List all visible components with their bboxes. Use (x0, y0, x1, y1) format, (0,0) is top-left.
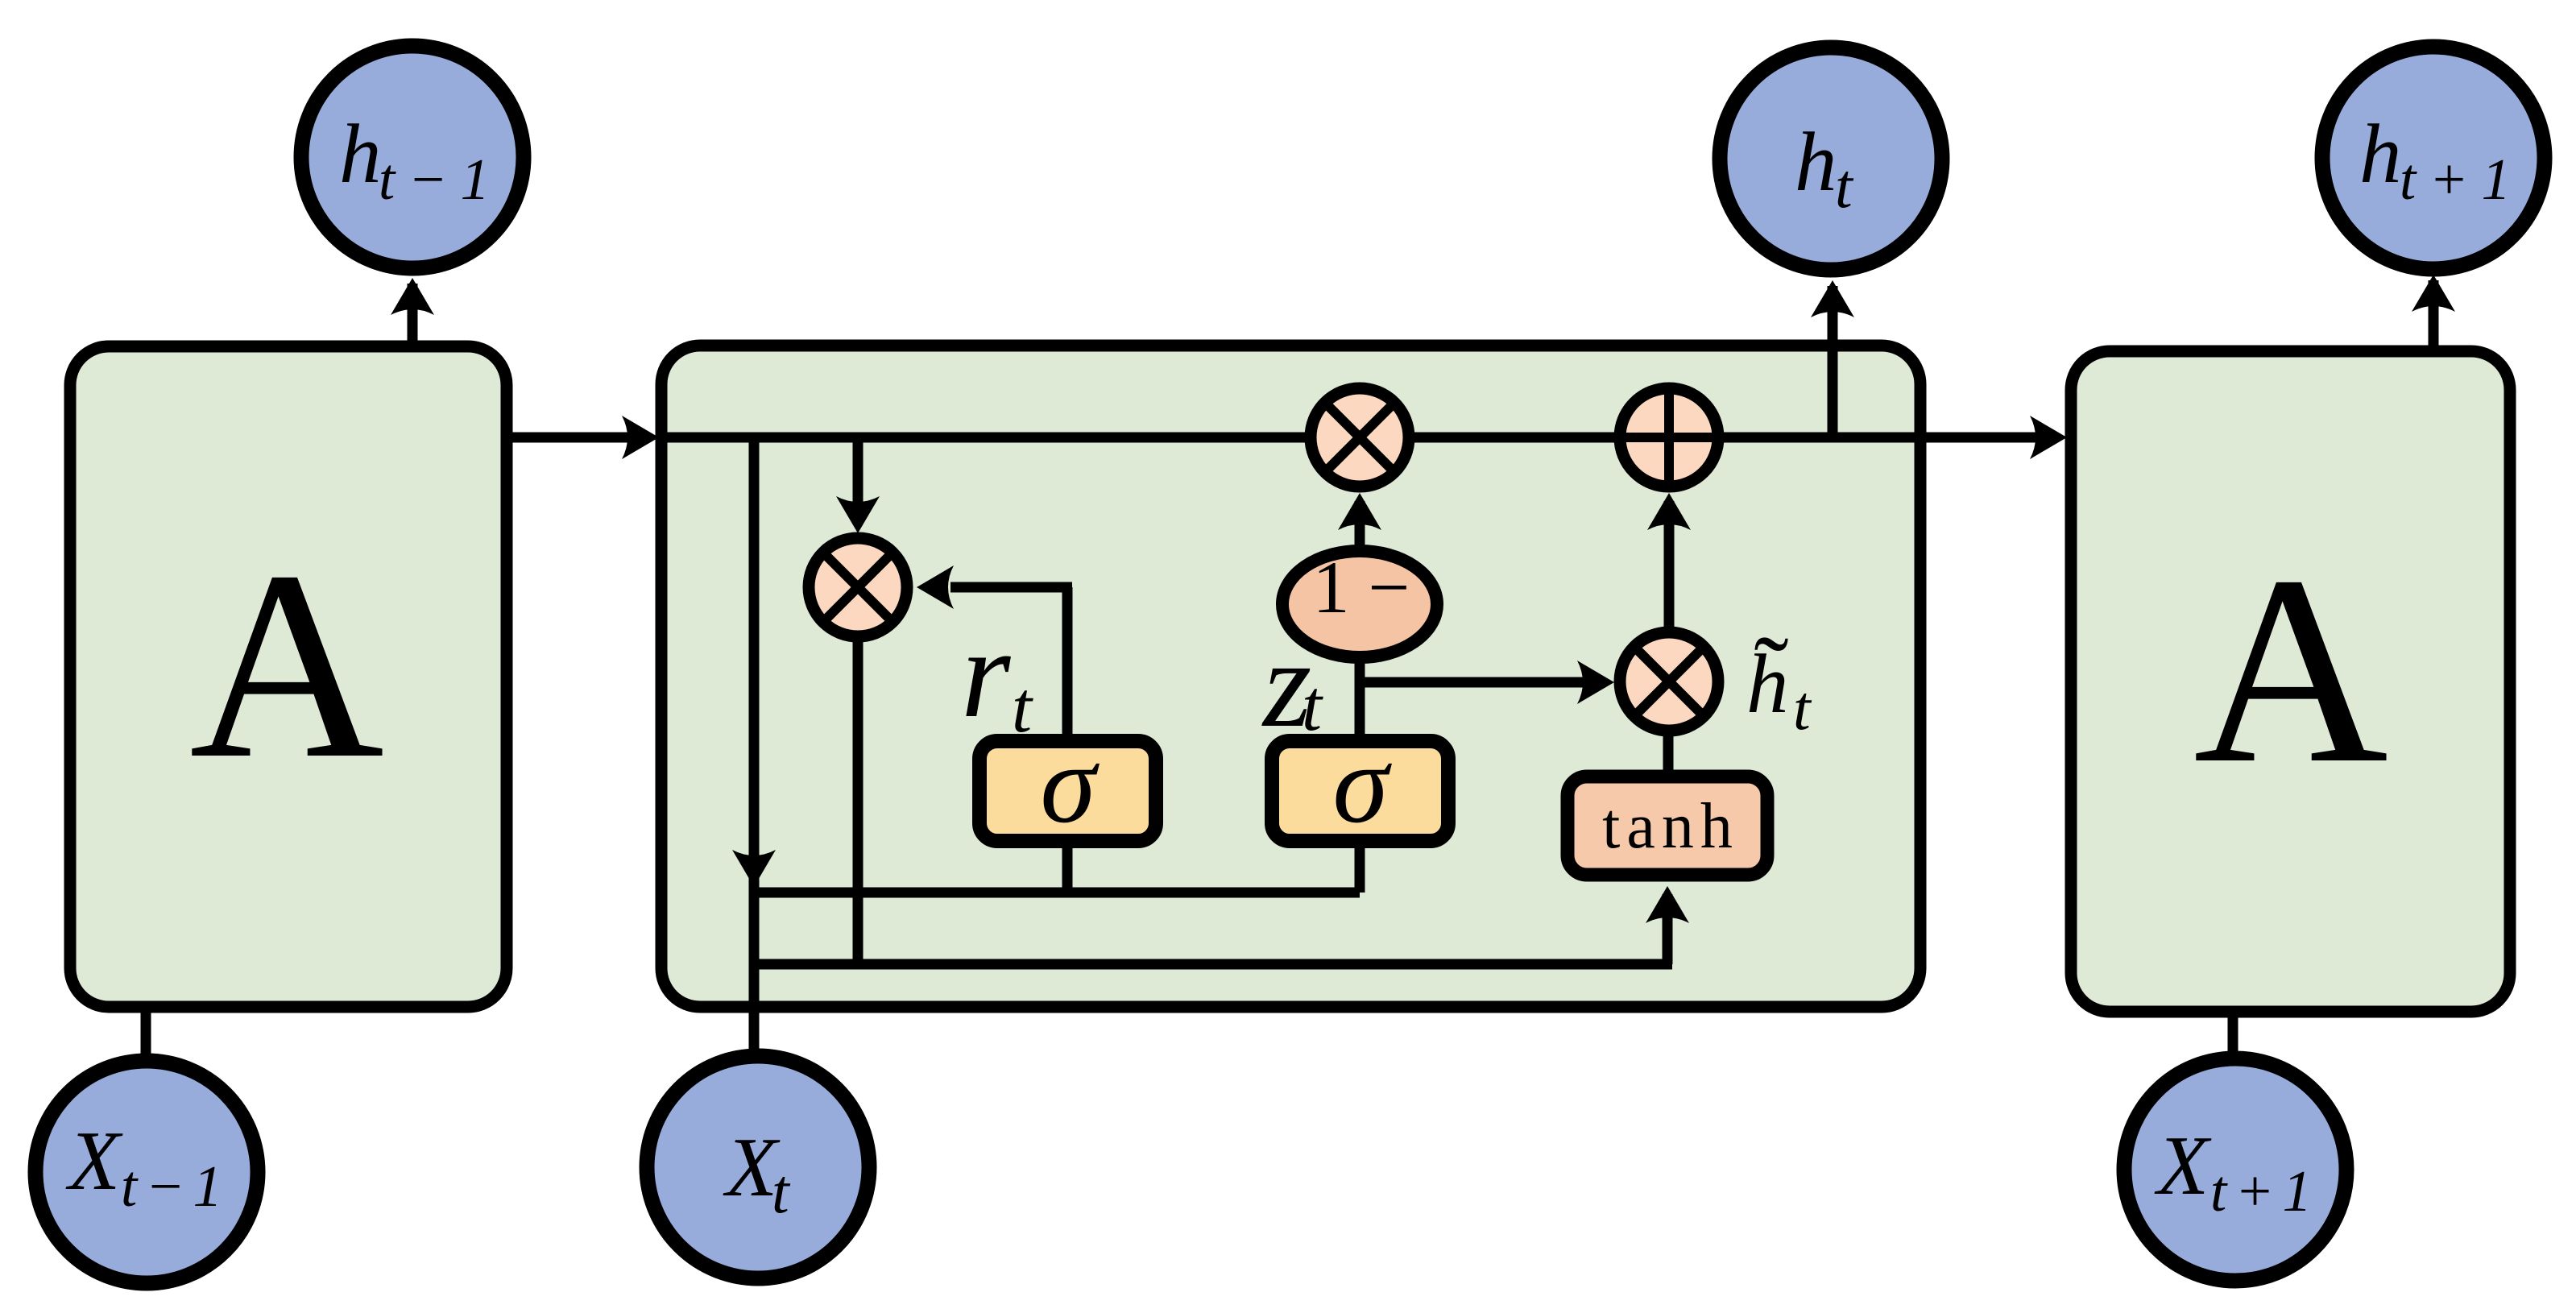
wire h-line left box to middle box (507, 433, 636, 443)
wire z_t riser (1355, 662, 1365, 734)
svg-text:X: X (2154, 1118, 2212, 1212)
wire bottom bus B (754, 959, 1672, 970)
wire z_t branch to right multiply (1360, 677, 1603, 688)
svg-text:A: A (189, 516, 384, 814)
wire bottom bus A (754, 888, 1360, 898)
wire riser to h_t+1 (2429, 280, 2439, 351)
node X_t-1 (35, 1061, 258, 1283)
svg-text:σ: σ (1040, 722, 1100, 847)
wire riser into tanh (1663, 894, 1673, 964)
node h_t-1 (301, 46, 524, 268)
gate multiply top (1311, 388, 1409, 487)
cell A right (2071, 351, 2510, 1012)
gate one-minus ellipse (1282, 551, 1437, 657)
gate tanh (1568, 777, 1767, 875)
wire left multiply output down (853, 641, 863, 964)
svg-text:σ: σ (1332, 722, 1392, 847)
arrowhead down onto bottom bus (732, 850, 776, 887)
svg-text:˜: ˜ (1754, 615, 1788, 731)
gate sigma 2 (1272, 741, 1448, 841)
cell GRU middle (661, 346, 1920, 1007)
gate multiply left (809, 538, 907, 636)
wire vertical X_t column (749, 437, 760, 1050)
svg-text:A: A (2193, 520, 2388, 819)
wire riser to h_t-1 (408, 284, 418, 346)
svg-text:1 −: 1 − (1313, 546, 1410, 628)
wire h-line middle box to right box (1920, 433, 2046, 443)
svg-text:r: r (961, 603, 1011, 744)
wire branch up to h_t (1828, 286, 1838, 437)
wire drop X_t-1 (141, 1007, 151, 1057)
svg-text:t: t (1835, 151, 1854, 221)
svg-text:tanh: tanh (1602, 791, 1739, 862)
node X_t (647, 1056, 869, 1278)
wire sigma1 stub (1062, 848, 1073, 893)
wire drop X_t+1 (2228, 1012, 2238, 1052)
svg-text:t: t (1302, 666, 1323, 746)
wire ellipse to top multiply (1355, 501, 1365, 545)
wire h-line inside middle box (661, 433, 1920, 443)
gate plus (1620, 388, 1718, 487)
svg-text:t: t (772, 1156, 791, 1226)
svg-text:t−1: t−1 (379, 147, 503, 212)
wire right multiply to tanh (1663, 735, 1674, 772)
cell A left (70, 346, 507, 1007)
svg-text:t+1: t+1 (2400, 147, 2524, 212)
svg-text:t−1: t−1 (121, 1154, 230, 1219)
svg-text:t: t (1793, 673, 1812, 743)
node h_t (1720, 48, 1942, 270)
svg-text:h: h (2359, 106, 2402, 201)
gate sigma 1 (979, 741, 1156, 841)
node X_t+1 (2124, 1058, 2346, 1281)
svg-text:t: t (1012, 668, 1033, 748)
gate multiply right (1620, 632, 1718, 731)
svg-text:h: h (339, 106, 382, 201)
wire r_t feedback (1062, 587, 1073, 734)
svg-text:h: h (1795, 114, 1837, 209)
svg-text:t+1: t+1 (2210, 1158, 2320, 1224)
node h_t+1 (2322, 47, 2545, 269)
wire right multiply to plus (1664, 501, 1675, 628)
wire sigma2 stub (1355, 848, 1365, 893)
svg-text:X: X (65, 1113, 123, 1207)
wire drop into left multiply (853, 437, 863, 522)
